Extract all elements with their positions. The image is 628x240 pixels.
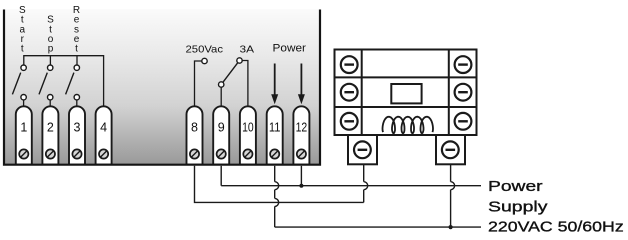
wire: terminal 8 down and right to coil terminal A1 (line 2) bbox=[195, 166, 364, 203]
junction: terminal 12 wire on supply line 1 bbox=[299, 184, 303, 188]
relay contact: fixed contact (3A) to terminal 10 bbox=[237, 58, 248, 107]
wire: terminal 9 down to supply line 1 bbox=[220, 166, 222, 186]
svg-text:Supply: Supply bbox=[488, 199, 548, 216]
svg-text:250Vac: 250Vac bbox=[186, 44, 224, 56]
contactor K1 body bbox=[335, 50, 477, 136]
junction: coil A2 wire on supply line 3 bbox=[449, 225, 453, 229]
svg-text:4: 4 bbox=[100, 121, 107, 135]
label "Power Supply 220VAC 50/60Hz" bbox=[488, 178, 624, 236]
svg-text:2: 2 bbox=[47, 121, 54, 135]
svg-text:9: 9 bbox=[218, 121, 225, 135]
terminal 1 pill bbox=[16, 106, 32, 164]
contactor left terminal screw row 2 bbox=[341, 84, 358, 101]
svg-text:3A: 3A bbox=[240, 44, 255, 56]
terminal 8 screw bbox=[190, 149, 199, 158]
terminal 11 screw bbox=[270, 149, 279, 158]
wire: coil terminal A1 down to line 2 (hops over line 1) bbox=[364, 164, 368, 202]
terminal 10 screw bbox=[243, 149, 252, 158]
svg-text:12: 12 bbox=[296, 121, 308, 135]
svg-text:Power: Power bbox=[273, 43, 307, 55]
terminal 9 pill bbox=[213, 106, 229, 164]
contactor right terminal screw row 3 bbox=[455, 113, 472, 130]
housing border (left, bottom, right edges) bbox=[4, 10, 320, 165]
switch Stop (N.O. pushbutton contact) bbox=[39, 65, 53, 107]
terminal 10 pill bbox=[240, 106, 256, 164]
wire: top bus connecting Start/Stop/Reset switches and terminal 4 bbox=[24, 56, 104, 107]
svg-text:Power: Power bbox=[488, 178, 543, 195]
terminal 3 pill bbox=[69, 106, 85, 164]
relay contact: common blade from terminal 9 bbox=[219, 63, 238, 107]
terminal 1 screw bbox=[19, 149, 28, 158]
wire: supply line 1 (terminal 9 / terminal 12 / Power) bbox=[221, 185, 481, 187]
contactor internal dividers bbox=[335, 50, 477, 136]
svg-text:11: 11 bbox=[269, 121, 281, 135]
terminal 9 screw bbox=[217, 149, 226, 158]
terminal 4 screw bbox=[99, 149, 108, 158]
svg-text:3: 3 bbox=[74, 121, 81, 135]
contactor coil terminal A1 (left foot) bbox=[348, 135, 377, 164]
wire: terminal 12 down to supply line 1 bbox=[300, 166, 302, 186]
switch Reset (N.O. pushbutton contact) bbox=[66, 65, 80, 107]
svg-text:1: 1 bbox=[20, 121, 27, 135]
contactor indicator window bbox=[391, 84, 421, 103]
svg-text:Stop: Stop bbox=[47, 15, 54, 55]
contactor left terminal screw row 1 bbox=[341, 56, 358, 73]
terminal 12 screw bbox=[297, 149, 306, 158]
terminal block housing (gray gradient panel) bbox=[3, 9, 321, 166]
switch Start (N.O. pushbutton contact) bbox=[12, 65, 26, 107]
terminal 2 pill bbox=[42, 106, 58, 164]
relay contact: fixed contact (250Vac) to terminal 8 bbox=[195, 58, 208, 106]
power input arrow into terminal 12 bbox=[298, 64, 305, 105]
contactor right terminal screw row 1 bbox=[455, 56, 472, 73]
wire: terminal 11 down to supply line 3 (hops over lines 1 and 2) bbox=[275, 166, 279, 227]
terminal 3 screw bbox=[72, 149, 81, 158]
svg-text:8: 8 bbox=[191, 121, 198, 135]
terminal 4 pill bbox=[96, 106, 112, 164]
terminal 2 screw bbox=[46, 149, 55, 158]
contactor coil terminal A2 (right foot) bbox=[436, 135, 465, 164]
terminal 12 pill bbox=[293, 106, 309, 164]
wire: coil terminal A2 down to supply line 3 (hops over line 1) bbox=[451, 164, 455, 227]
svg-text:10: 10 bbox=[242, 121, 254, 135]
svg-text:220VAC 50/60Hz: 220VAC 50/60Hz bbox=[488, 219, 624, 236]
contactor coil winding bbox=[383, 117, 434, 134]
wire: supply line 3 (terminal 11 / coil A2 / 220VAC) bbox=[275, 226, 481, 228]
terminal 11 pill bbox=[267, 106, 283, 164]
power input arrow into terminal 11 bbox=[271, 64, 278, 105]
terminal 8 pill bbox=[187, 106, 203, 164]
contactor right terminal screw row 2 bbox=[455, 84, 472, 101]
contactor left terminal screw row 3 bbox=[341, 113, 358, 130]
